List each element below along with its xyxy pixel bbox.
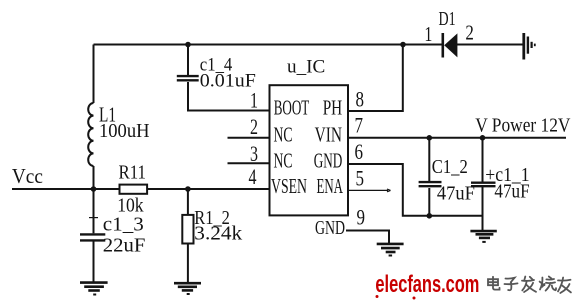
svg-text:PH: PH [323, 96, 343, 120]
svg-text:VSEN: VSEN [271, 174, 307, 198]
svg-text:GND: GND [315, 217, 345, 239]
svg-text:2: 2 [250, 114, 258, 139]
svg-text:V Power 12V: V Power 12V [475, 114, 571, 136]
svg-text:ENA: ENA [317, 174, 344, 198]
svg-text:elecfans.com: elecfans.com [375, 271, 479, 298]
svg-text:Vcc: Vcc [12, 164, 43, 188]
svg-text:7: 7 [355, 113, 364, 138]
svg-text:8: 8 [356, 87, 365, 112]
svg-text:47uF: 47uF [437, 183, 475, 205]
svg-text:VIN: VIN [315, 122, 342, 146]
svg-text:47uF: 47uF [494, 181, 529, 203]
svg-text:3.24k: 3.24k [194, 223, 242, 245]
svg-text:6: 6 [355, 139, 364, 164]
svg-text:D1: D1 [439, 8, 456, 30]
svg-text:R11: R11 [119, 162, 147, 184]
svg-text:NC: NC [274, 148, 293, 172]
svg-text:2: 2 [465, 21, 474, 45]
svg-text:1: 1 [250, 88, 258, 113]
svg-text:0.01uF: 0.01uF [200, 71, 256, 92]
svg-text:GND: GND [314, 148, 343, 172]
svg-text:u_IC: u_IC [287, 57, 325, 78]
svg-text:NC: NC [274, 122, 293, 146]
svg-text:1: 1 [424, 22, 432, 46]
svg-text:100uH: 100uH [99, 120, 150, 142]
svg-text:c1_3: c1_3 [103, 214, 144, 236]
svg-text:C1_2: C1_2 [432, 156, 468, 178]
svg-text:3: 3 [250, 141, 258, 166]
svg-text:5: 5 [356, 166, 365, 191]
svg-text:9: 9 [357, 205, 366, 230]
svg-text:BOOT: BOOT [274, 96, 310, 120]
svg-text:4: 4 [249, 164, 257, 189]
svg-text:22uF: 22uF [103, 235, 146, 257]
